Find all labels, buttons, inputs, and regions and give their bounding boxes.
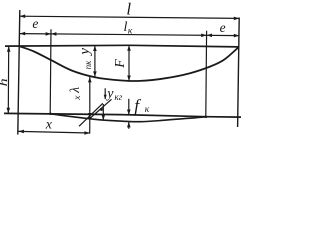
svg-text:l: l	[126, 0, 131, 19]
support axis right	[238, 18, 240, 128]
junction dot at right strut	[205, 116, 208, 119]
arrow e right outer	[234, 34, 239, 38]
hanger line right (extension at last strut)	[205, 31, 208, 117]
h dimension line	[7, 46, 9, 113]
bottom chord (contact wire straight line)	[4, 113, 241, 117]
svg-text:e: e	[220, 20, 226, 35]
svg-text:e: e	[32, 16, 38, 31]
svg-text:пк: пк	[83, 60, 93, 70]
dimension line l	[20, 16, 239, 18]
svg-text:к: к	[145, 105, 150, 115]
arrow e left outer	[20, 32, 25, 36]
hanger line left (extension at first strut)	[49, 29, 52, 114]
contact wire sag curve	[50, 114, 206, 122]
junction dot at lambda bottom	[88, 117, 91, 120]
dimension line e / l_k / e	[20, 34, 239, 36]
svg-text:lк: lк	[124, 20, 133, 36]
top chord (messenger attachment line)	[5, 45, 239, 47]
svg-text:F: F	[113, 59, 128, 69]
y_pk dimension	[94, 46, 96, 77]
svg-text:yкг: yкг	[105, 87, 122, 103]
junction dot at left strut	[49, 112, 52, 115]
messenger wire curve	[20, 46, 239, 81]
F dimension	[128, 45, 130, 81]
svg-text:h: h	[0, 78, 10, 86]
leader line 2	[79, 103, 103, 126]
arrow pair at right hanger	[201, 34, 206, 38]
y_kg dimension tick	[102, 104, 104, 120]
svg-text:f: f	[134, 96, 141, 116]
arrow pair at left hanger	[46, 32, 51, 36]
junction dot on leader	[100, 108, 103, 111]
arrow l left	[20, 14, 25, 18]
svg-text:y: y	[77, 48, 93, 57]
f_k dimension upper arrow	[128, 99, 130, 115]
svg-text:x: x	[45, 118, 53, 133]
support axis left	[18, 10, 20, 135]
svg-text:λ: λ	[67, 87, 82, 94]
f_k dimension lower arrow	[128, 122, 130, 129]
lambda_x dimension	[89, 77, 91, 118]
arrow l right	[234, 17, 239, 21]
small down arrow before y_kg label	[104, 88, 106, 99]
leader line 1 to y_kg label	[90, 99, 112, 118]
svg-text:x: x	[73, 95, 83, 101]
x dimension line	[19, 131, 90, 133]
